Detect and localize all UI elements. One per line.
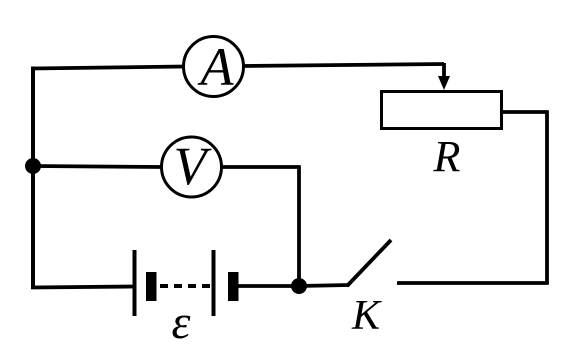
svg-text:R: R [433, 132, 461, 181]
voltmeter V [162, 136, 222, 197]
node bottom junction dot [291, 278, 307, 294]
wire right vertical [545, 111, 549, 285]
wire from junction to switch [299, 285, 349, 286]
svg-text:ε: ε [172, 296, 191, 348]
switch K lever [347, 240, 391, 286]
svg-text:V: V [174, 136, 213, 196]
wire bottom left horizontal [31, 287, 135, 288]
battery dashed link [160, 284, 214, 288]
wire down into arrow [442, 63, 446, 79]
battery cell 2 long plate [212, 250, 216, 316]
battery cell 1 long plate [133, 250, 137, 316]
battery cell 2 short thick plate [228, 272, 239, 301]
wire from ammeter to top right [243, 64, 444, 66]
wire left vertical [31, 67, 35, 289]
svg-text:A: A [198, 37, 235, 97]
wire voltmeter right horizontal [221, 165, 301, 169]
wire from battery to junction [238, 284, 300, 288]
wire from rheostat right [501, 110, 549, 114]
battery cell 1 short thick plate [146, 272, 157, 301]
wire top left horizontal to ammeter [31, 67, 184, 69]
wire from left node to voltmeter [33, 166, 163, 167]
node left junction dot [25, 158, 41, 174]
rheostat R body [382, 92, 502, 129]
wire voltmeter branch vertical [297, 166, 301, 287]
ammeter A [184, 37, 244, 98]
svg-text:K: K [351, 293, 382, 339]
wire switch fixed contact [397, 281, 549, 285]
arrow head onto rheostat [438, 76, 450, 90]
